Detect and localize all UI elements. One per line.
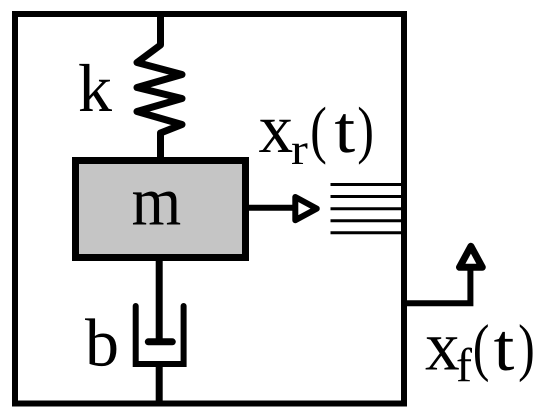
wire: x_f elbow from frame xyxy=(403,269,470,303)
label m xyxy=(133,192,180,225)
hatch line 5 xyxy=(331,231,404,234)
glyph x xyxy=(426,337,459,369)
glyph ( xyxy=(312,107,325,165)
glyph x xyxy=(259,120,292,152)
wire: damper lower rod xyxy=(156,364,163,402)
glyph subscript r xyxy=(292,143,307,164)
label x_f(t) xyxy=(426,324,533,382)
glyph t xyxy=(335,114,355,153)
mass m (rectangle) xyxy=(76,161,246,258)
glyph subscript f xyxy=(457,348,472,382)
hatch line 4 xyxy=(331,219,404,222)
spring k (with top/bottom connector wires) xyxy=(137,15,182,161)
label k xyxy=(79,64,112,111)
label b xyxy=(85,318,116,366)
damper piston xyxy=(148,338,172,345)
glyph ( xyxy=(475,324,488,382)
wire: damper upper rod xyxy=(156,257,163,344)
hatch line 2 xyxy=(331,195,404,198)
hatch line 3 xyxy=(331,207,404,210)
wire: arrow shaft from mass to right xyxy=(247,205,293,211)
hatch line 1 xyxy=(331,183,404,186)
hatch lines (wall) xyxy=(331,185,404,233)
glyph ) xyxy=(520,324,533,382)
arrowhead (open triangle, up) x_f xyxy=(460,246,483,267)
frame (outer box) xyxy=(15,14,404,404)
label x_r(t) xyxy=(259,107,372,165)
glyph t xyxy=(494,332,514,371)
arrowhead (open triangle) x_r xyxy=(295,197,317,220)
glyph ) xyxy=(359,107,372,165)
damper cylinder (cup) xyxy=(136,306,184,364)
